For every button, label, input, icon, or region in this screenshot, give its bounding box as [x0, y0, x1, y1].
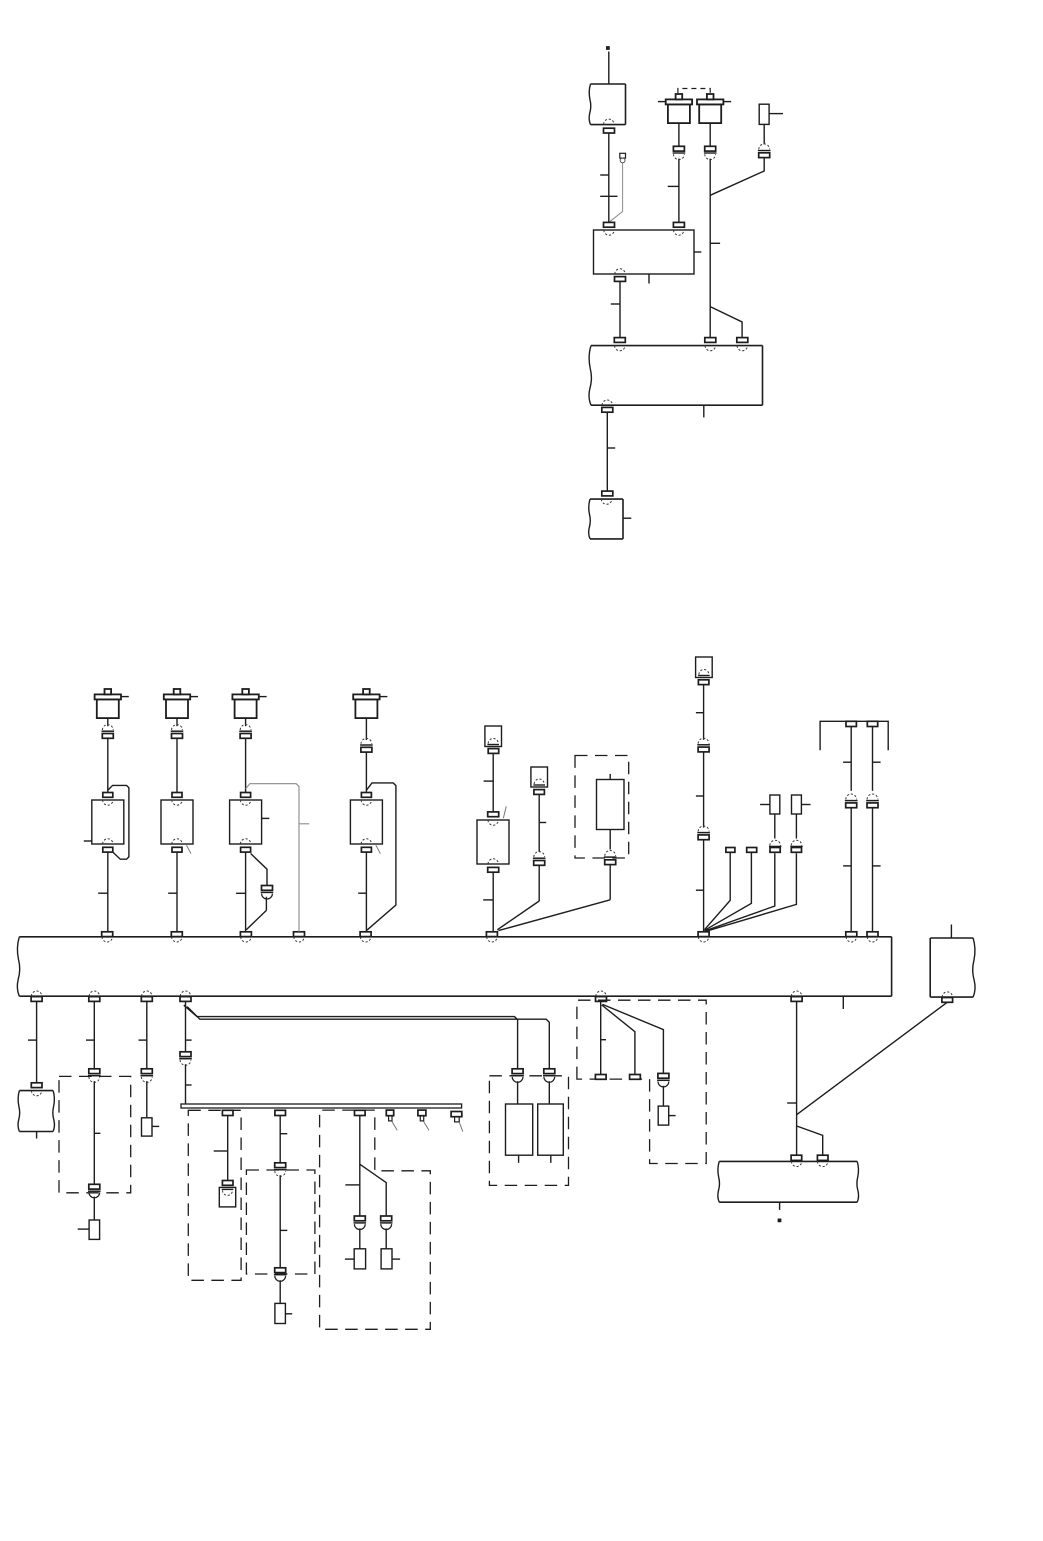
terminal above B3 pin3 [737, 338, 748, 343]
terminal below B1 [604, 128, 615, 133]
terminal below ECM x146 [141, 997, 152, 1002]
wire H1 down [227, 1116, 229, 1181]
terminal below ECM x36 [31, 997, 42, 1002]
bar end connector [451, 1112, 462, 1117]
wire to sensor [492, 753, 494, 812]
wire coil C3 to injector C [245, 739, 247, 793]
tick 2 on D4 wire [186, 1084, 192, 1086]
wire coil R down to B3 pin2 [709, 159, 711, 338]
socket notch injector D top [361, 800, 371, 805]
bypass loop around injector A [108, 785, 129, 859]
wire coil C2 to connector [176, 718, 178, 726]
node: supply dot [606, 46, 609, 49]
wire coil C3 to connector [245, 718, 247, 726]
connector dome at dashed box bottom [605, 851, 616, 856]
socket notch RT bottom [942, 992, 952, 997]
dashed box H around capacitors [489, 1076, 568, 1186]
terminal above ECM x491 [486, 932, 497, 937]
tick on H2 wire [280, 1133, 287, 1135]
connector pair on sender wire [534, 852, 545, 857]
injector D box [350, 800, 382, 844]
connector pair on fan wire B3 [658, 1073, 669, 1078]
connector pair 2 on harness wire [698, 826, 709, 831]
terminal above sensor box [488, 812, 499, 817]
main D4 wire upper [185, 1001, 187, 1051]
connector pair at dashed box F bottom [89, 1184, 100, 1189]
terminal above injector A [103, 793, 113, 798]
tick right of SB2 [152, 1125, 159, 1127]
right pair wire lower [872, 808, 874, 932]
stub below B3 [703, 405, 705, 417]
slash mark at injector D bottom [376, 845, 381, 854]
terminal above ECM x365 [360, 932, 371, 937]
tick right of micro relay 4 [801, 804, 810, 806]
wire injector C to ECM [245, 852, 247, 932]
wire R1 diagonal to coil R wire [710, 158, 764, 196]
tick on D6 wire [787, 1102, 796, 1104]
ignition coil C2 [174, 689, 181, 694]
ground lug SB1 [89, 1220, 100, 1239]
wire 4 up to micro relay [795, 814, 797, 839]
wire sender to junction [538, 865, 540, 901]
stub terminal 2 [747, 848, 757, 853]
wire ECM to connector D3 [146, 1001, 148, 1068]
tick on gray branch [299, 823, 309, 825]
tick on wire at y822 [539, 822, 546, 824]
socket notch ECM bottom x94 [89, 991, 99, 996]
wire injector A to ECM [107, 852, 109, 932]
terminal above ECM x872 [867, 932, 878, 937]
terminal below sender plug [534, 790, 545, 795]
connector pair on D4 wire [180, 1052, 191, 1057]
tick on wire at y781 [484, 780, 494, 782]
terminal on bracket right [867, 721, 877, 726]
wire coil C1 to connector [107, 718, 109, 726]
wire ECM to dashed box F [93, 1001, 95, 1068]
slash under bar stub 1 [392, 1122, 397, 1131]
wire H3 main [359, 1116, 361, 1217]
connector pair on left wire [846, 794, 857, 799]
socket notch injector A top [103, 800, 113, 805]
junction block (torn box) B1 [591, 83, 626, 85]
stub above right junction box [950, 925, 952, 939]
parallel wire 2 from D4 to box G2 [187, 1007, 549, 1069]
tick on wire at y712 [696, 712, 704, 714]
socket notch ECM top x703 [698, 937, 708, 942]
terminal below sensor box [488, 867, 499, 872]
socket notch B3 pin2 [705, 346, 715, 351]
terminal below ECM x601 [596, 997, 607, 1002]
bar stub terminal 1 [386, 1110, 393, 1116]
terminal above ECM x851 [846, 932, 857, 937]
socket notch ECM bottom x796 [791, 991, 801, 996]
tick right of SB5 [392, 1258, 400, 1260]
socket notch B3 bottom [602, 400, 612, 405]
connector pair under coil C4 [361, 738, 372, 743]
header bracket of wire pair [820, 721, 888, 750]
tick mark on wire at y175 [600, 174, 609, 176]
tick on D3 wire [139, 1039, 147, 1041]
ground lug in dashed box B [658, 1106, 669, 1125]
stub above sender unit [609, 774, 611, 780]
socket notch injector D bottom [361, 839, 371, 844]
right pair wire upper [872, 727, 874, 791]
harness wire upper segment [703, 685, 705, 740]
terminal above injector C [241, 793, 251, 798]
wire injector D to ECM [365, 852, 367, 932]
slash mark at injector B bottom [187, 845, 192, 854]
tick on D1 wire [28, 1039, 37, 1041]
dashed enclosure (option) box [575, 756, 629, 859]
terminal above B3 pin2 [705, 338, 716, 343]
terminal under bar H3 [355, 1110, 366, 1115]
fan wire B2 [602, 1005, 635, 1075]
stub below G2 [550, 1155, 552, 1163]
sender unit box inside dashed enclosure [597, 780, 625, 830]
terminal below sensor plug [488, 749, 499, 754]
capacitor box G2 [538, 1104, 564, 1155]
socket notch injector C top [240, 800, 250, 805]
left pair wire upper [850, 727, 852, 791]
tick on coil R wire [710, 242, 720, 244]
terminal below B3 [602, 407, 613, 412]
wire to capacitor G1 [517, 1081, 519, 1104]
wire coil R to connector [709, 123, 711, 146]
tick left of SB4 [345, 1258, 354, 1260]
junction block B4 (torn box) [590, 498, 623, 500]
branch diagonal to H3b [360, 1164, 386, 1216]
terminal above relay box B2 pin1 [604, 222, 615, 227]
main D4 wire lower [185, 1064, 187, 1104]
wire to ground lug SB2 [146, 1081, 148, 1118]
socket notch injector C bottom [240, 839, 250, 844]
terminal above bottom box pin1 [791, 1155, 802, 1160]
socket notch sensor top [488, 820, 498, 825]
stub terminal 1 [726, 848, 735, 853]
tick on fan wire B1 [601, 1039, 606, 1041]
slash under bar stub 2 [424, 1122, 429, 1131]
bypass lower diagonal to ECM terminal [246, 910, 266, 929]
ground lug SB2 [142, 1118, 153, 1136]
wire to lug in dashed box B [662, 1086, 664, 1106]
socket notch ECM top x491 [487, 937, 497, 942]
diagonal wire to ECM terminal x491 [499, 900, 611, 931]
ground lug SB3 [275, 1303, 286, 1323]
wire sensor to ECM [492, 872, 494, 932]
faint wire from S1 to relay pin [610, 163, 623, 222]
tick left of injector D wire [358, 892, 366, 894]
terminal below injector D [361, 847, 371, 852]
socket notch ECM top x365 [360, 937, 370, 942]
terminal below ECM x796 [791, 997, 802, 1002]
capacitor box G1 [506, 1104, 533, 1155]
tick on H1 wire [214, 1150, 228, 1152]
tick right of lug [669, 1115, 676, 1117]
tick right of injector C [262, 817, 270, 819]
terminal above B2 pin2 [673, 222, 684, 227]
wire H2 through dashed box D [279, 1175, 281, 1268]
wire ECM x796 down [796, 1001, 798, 1155]
tick on wire at y890 [696, 889, 704, 891]
wire to capacitor G2 [548, 1081, 550, 1104]
tick on wire at y900 [483, 899, 493, 901]
ignition coil C4 [363, 689, 370, 694]
tick right of R1 [769, 113, 783, 115]
harness wire middle segment [703, 752, 705, 828]
stub below BT [779, 1202, 781, 1210]
fan diagonal to relay wire 3 [705, 853, 775, 931]
micro relay box 4 [792, 795, 802, 814]
tick lower on left pair wire [843, 865, 851, 867]
tick lower on right pair wire [873, 865, 881, 867]
wire sender down [538, 794, 540, 852]
slash mark at sensor top right [503, 806, 506, 818]
fan diagonal to stub wire 2 [705, 852, 752, 930]
resistor R1 (top right) [759, 104, 769, 124]
tick left of injector A [84, 840, 92, 842]
socket notch ECM bottom x36 [31, 991, 41, 996]
socket notch BT pin2 [818, 1161, 828, 1166]
wire ECM to ground block D1 [36, 1001, 38, 1082]
connector pair on H3 main [354, 1216, 365, 1221]
wire to junction [609, 865, 611, 900]
bypass with connector at injector C [251, 854, 267, 886]
socket notch of B4 [601, 499, 611, 504]
fan diagonal to stub wire 1 [705, 852, 731, 930]
socket notch ECM top x176 [172, 937, 182, 942]
terminal above B3 pin1 [614, 338, 625, 343]
connector pair at dashed box D bottom [275, 1268, 286, 1273]
ground lug SB5 [381, 1249, 392, 1269]
tick 2 on H2 wire [280, 1229, 287, 1231]
terminal below RT [942, 998, 953, 1003]
injector B box [161, 800, 193, 844]
connector pair 1 on harness wire [698, 738, 709, 743]
wire to ground lug SB4 [359, 1228, 361, 1248]
wire coil C1 to injector A [107, 739, 109, 793]
ground lug SB4 [354, 1249, 365, 1269]
dashed box C [188, 1110, 241, 1280]
socket notch injector B bottom [172, 839, 182, 844]
terminal below injector A [103, 847, 113, 852]
ground bus bar [181, 1104, 462, 1108]
wire from supply dot to junction block [608, 52, 610, 85]
slash under bar end connector [459, 1122, 463, 1132]
micro relay box 3 [770, 795, 780, 814]
wire coil C4 to connector [365, 718, 367, 740]
tick right of SB3 [285, 1313, 292, 1315]
tick mark crossing wire at y196 [600, 195, 617, 197]
terminal below dashed box [605, 860, 616, 865]
bottom junction box BT (torn both edges) [719, 1160, 857, 1162]
tick left of SB1 [78, 1228, 89, 1230]
socket notch ECM top x299 [294, 937, 304, 942]
socket notch B3 pin1 [615, 346, 625, 351]
terminal below ECM x185 [180, 997, 191, 1002]
long diagonal wire RT to bottom harness [796, 1002, 947, 1115]
tick right of B4 [623, 517, 631, 519]
connector pair under coil R [705, 146, 716, 151]
connector pair on wire 4 [791, 848, 801, 853]
wire R1 to connector [763, 124, 765, 144]
connector plug box (top of column 8) [696, 657, 713, 678]
tick on right side of B2 [694, 251, 701, 253]
terminal under bar H1 [222, 1110, 233, 1115]
terminal above ECM x176 [171, 932, 182, 937]
socket notch ECM bottom x185 [180, 991, 190, 996]
wire coil C2 to injector B [176, 739, 178, 793]
socket notch B2 pin2 [674, 230, 684, 235]
tick left of micro relay 3 [760, 804, 770, 806]
tick on left pair wire [843, 761, 851, 763]
tick on wire at y796 [696, 795, 704, 797]
tick on wire at y893 [98, 892, 108, 894]
tick on wire in box F [94, 1132, 100, 1134]
connector pair at dashed box F top [89, 1069, 100, 1074]
wire 3 up to micro relay [774, 814, 776, 839]
connector pair under coil C1 [102, 725, 113, 730]
wire to ground lug SB3 [279, 1280, 281, 1303]
terminal above injector B [172, 793, 182, 798]
terminal above injector D [361, 793, 371, 798]
ignition coil C1 [105, 689, 112, 694]
stub below G1 [518, 1155, 520, 1163]
terminal above ECM x107 [102, 932, 113, 937]
terminal end fan wire B1 [595, 1075, 606, 1080]
relay box B2 [594, 230, 695, 274]
terminal end fan wire B2 [630, 1075, 641, 1080]
connector pair under coil C2 [172, 725, 183, 730]
socket notch B3 pin3 [737, 346, 747, 351]
ground junction block (torn both edges) [19, 1090, 53, 1092]
wire coil C4 to injector D [365, 753, 367, 793]
sensor plug box (top of column 5) [485, 726, 502, 747]
terminal below injector B [172, 847, 182, 852]
dashed box E (stepped outline) [320, 1110, 431, 1329]
stub below ground block [36, 1132, 38, 1139]
connector pair on H2 wire [275, 1163, 286, 1168]
wire coil L to B2 pin2 [678, 159, 680, 223]
socket notch B2 pin1 [604, 230, 614, 235]
terminal above ground block [31, 1083, 42, 1088]
tick on injector C wire [236, 892, 246, 894]
fan diagonal to relay wire 4 [705, 853, 797, 931]
wire B1 to relay box B2 pin 1 [608, 133, 610, 222]
wire through dashed box F [93, 1081, 95, 1184]
socket notch ECM top x245 [241, 937, 251, 942]
small connector S1 (square + ring) [620, 153, 626, 158]
wire coil L to connector [678, 123, 680, 146]
branch diagonal to B3 pin3 [710, 307, 742, 338]
dashed box F [59, 1076, 131, 1192]
ECM main box (torn left edge) [19, 936, 891, 938]
dome box H1 [219, 1187, 235, 1207]
socket notch ECM top x872 [867, 937, 877, 942]
connector pair under R1 [759, 144, 770, 149]
tick on coil L wire [668, 185, 679, 187]
connector pair on right wire [867, 794, 878, 799]
injector C box [230, 800, 262, 844]
right junction box RT (torn right edge) [930, 937, 973, 939]
terminal below ECM x94 [89, 997, 100, 1002]
terminal above bottom box pin2 [817, 1155, 828, 1160]
connector pair on wire 3 [770, 848, 780, 853]
node: ground dot below BT [778, 1219, 781, 1222]
connector pair on bypass [262, 886, 273, 891]
terminal above ECM x245 [240, 932, 251, 937]
tick on wire at y304 [611, 303, 620, 305]
terminal above dome box H1 [222, 1181, 233, 1186]
tick on right pair wire [873, 761, 881, 763]
tick on H3 wire [345, 1184, 359, 1186]
sender plug box (column 6) [531, 767, 548, 787]
ignition coil C3 [242, 689, 249, 694]
socket notch injector A bottom [103, 839, 113, 844]
tick on D4 wire [186, 1039, 192, 1041]
tick on wire at y448 [607, 447, 615, 449]
socket notch ECM top x107 [102, 937, 112, 942]
dashed link between coil caps [678, 89, 710, 94]
diagonal sender wire to ECM terminal x491 [497, 901, 539, 930]
connector pair on H3 branch [381, 1216, 392, 1221]
connector pair on G1 wire [512, 1069, 523, 1074]
wire sender unit down [609, 830, 611, 850]
wire to ground lug SB5 [385, 1228, 387, 1248]
dashed box B outline (stepped) [577, 1000, 706, 1163]
connector pair D3 [141, 1069, 152, 1074]
connector pair under coil C3 [240, 725, 251, 730]
bypass loop injector D to ECM [366, 783, 396, 930]
socket notch BT pin1 [791, 1161, 801, 1166]
ignition coil L (top) [676, 94, 683, 99]
bypass lower wire [265, 897, 267, 911]
socket notch ECM bottom x601 [596, 991, 606, 996]
socket notch B2 bottom [615, 269, 625, 274]
wire B2 to box B3 [619, 281, 621, 337]
socket notch of B1 bottom [604, 119, 614, 124]
wire B3 to junction B4 [606, 412, 608, 491]
connector pair on G2 wire [544, 1069, 555, 1074]
wire injector B to ECM [176, 852, 178, 932]
socket notch of ground block [31, 1091, 41, 1096]
harness wire lower segment [703, 840, 705, 932]
terminal below injector C [241, 847, 251, 852]
terminal on bracket left [846, 721, 856, 726]
connector pair under coil L [673, 146, 684, 151]
wire H2 upper [279, 1116, 281, 1163]
dashed box D [246, 1170, 315, 1274]
terminal under bar H2 [275, 1110, 286, 1115]
socket notch injector B top [172, 800, 182, 805]
terminal below plug box [698, 680, 709, 685]
terminal above ECM x703 [698, 932, 709, 937]
bar stub terminal 2 [418, 1110, 426, 1116]
fan wire B1 vertical [600, 1001, 602, 1074]
branch diagonal to second terminal [797, 1126, 823, 1155]
terminal below B2 [615, 277, 626, 282]
socket notch sensor bottom [488, 859, 498, 864]
tick on D2 wire [86, 1039, 94, 1041]
tick on wire at y893 [168, 892, 177, 894]
fan wire B3 [603, 1004, 664, 1073]
bare stub below ECM x843 [842, 996, 844, 1009]
terminal above B4 [602, 491, 613, 496]
gray branch from injector C to ECM x299 [246, 784, 299, 932]
injector A box [92, 800, 124, 844]
socket notch ECM bottom x146 [142, 991, 152, 996]
terminal above ECM x299 [294, 932, 305, 937]
socket notch ECM top x851 [846, 937, 856, 942]
